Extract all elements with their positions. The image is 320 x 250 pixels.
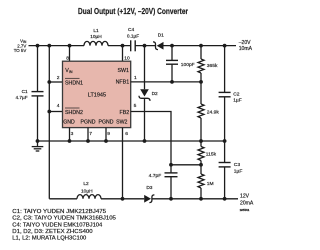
resistor 365k (200, 46, 202, 59)
wire pin8 stub (69, 46, 71, 62)
capacitor C3 (224, 141, 226, 163)
svg-text:C2: C2 (233, 92, 240, 98)
svg-text:1µF: 1µF (234, 169, 243, 175)
wire pin3 stub (69, 128, 71, 141)
wire pin10 stub (122, 46, 124, 62)
svg-text:10: 10 (124, 55, 130, 61)
capacitor C2 (224, 46, 226, 93)
wire pin7 stub (87, 128, 89, 141)
svg-text:C4: TAIYO YUDEN EMK107BJ104: C4: TAIYO YUDEN EMK107BJ104 (12, 222, 102, 228)
svg-text:PGND: PGND (81, 120, 96, 126)
svg-text:4.7µF: 4.7µF (16, 95, 28, 100)
svg-text:0.1µF: 0.1µF (127, 34, 139, 40)
svg-text:1: 1 (134, 75, 137, 81)
wire SHDN1 stub pin2 (49, 81, 62, 83)
wire VIN rail left (29, 45, 85, 47)
svg-text:C4: C4 (128, 27, 134, 33)
svg-text:L2: L2 (83, 181, 89, 187)
diode D1 (153, 42, 158, 50)
svg-text:1M: 1M (207, 181, 214, 187)
svg-text:C1: TAIYO YUDEN JMK212BJ475: C1: TAIYO YUDEN JMK212BJ475 (12, 209, 106, 215)
svg-text:D1, D2, D3: ZETEX ZHCS400: D1, D2, D3: ZETEX ZHCS400 (12, 229, 92, 235)
junction dots on 12V rail (121, 197, 125, 201)
svg-text:4: 4 (57, 103, 60, 109)
svg-text:1945 TA01: 1945 TA01 (240, 208, 250, 212)
ground (37, 141, 39, 146)
resistor 1M (200, 165, 202, 174)
wire D1 to -20V output (164, 45, 237, 47)
svg-text:LT1945: LT1945 (88, 93, 106, 99)
svg-text:NFB1: NFB1 (116, 80, 130, 86)
svg-text:6: 6 (125, 131, 128, 137)
svg-text:12V: 12V (240, 193, 250, 199)
svg-text:L1, L2: MURATA LQH3C100: L1, L2: MURATA LQH3C100 (12, 236, 86, 242)
svg-text:5: 5 (134, 103, 137, 109)
wire pin6 SW2 column (122, 128, 124, 199)
inductor L1 (84, 41, 108, 45)
svg-text:D3: D3 (146, 185, 152, 191)
resistor 24.9k (200, 82, 202, 104)
svg-text:FB2: FB2 (120, 110, 130, 116)
wire L1 to C4 (108, 45, 131, 47)
svg-text:D2: D2 (152, 91, 158, 97)
svg-text:PGND: PGND (99, 120, 114, 126)
ground rail (38, 140, 225, 142)
svg-text:115k: 115k (206, 152, 217, 158)
junction dots on VIN rail (36, 44, 40, 48)
svg-text:C2, C3: TAIYO YUDEN TMK316BJ10: C2, C3: TAIYO YUDEN TMK316BJ105 (12, 216, 116, 222)
wire pin9 stub (105, 128, 107, 141)
op-amp U1 LT1945 (63, 61, 131, 127)
capacitor 4.7pF (170, 165, 172, 173)
svg-text:SHDN2: SHDN2 (65, 110, 83, 116)
svg-text:7: 7 (89, 131, 92, 137)
capacitor 100pF (171, 46, 173, 61)
wire D3 to 12V output (152, 198, 238, 200)
svg-text:TO 5V: TO 5V (14, 48, 27, 53)
svg-text:SW1: SW1 (118, 68, 130, 74)
svg-text:1µF: 1µF (233, 97, 242, 103)
svg-text:8: 8 (66, 55, 69, 61)
svg-text:10mA: 10mA (239, 46, 253, 52)
resistor 115k (200, 141, 202, 147)
svg-text:365k: 365k (207, 63, 218, 69)
capacitor C4 (130, 40, 132, 51)
svg-text:9: 9 (107, 131, 110, 137)
wire FB2 pin5 (131, 112, 171, 165)
svg-text:10µH: 10µH (81, 189, 93, 195)
svg-text:2: 2 (57, 75, 60, 81)
svg-text:GND: GND (63, 120, 75, 126)
diode D3 (144, 195, 151, 203)
wire VIN feed to L2 (49, 198, 77, 200)
svg-text:Dual Output (+12V, –20V) Conve: Dual Output (+12V, –20V) Converter (78, 7, 188, 16)
wire SHDN2 stub pin4 (49, 111, 62, 113)
svg-text:24.9k: 24.9k (207, 110, 220, 116)
wire NFB1 pin1 (131, 81, 201, 83)
wire FB2 tap (171, 164, 201, 166)
wire C4 to D1 (135, 45, 155, 47)
svg-text:100pF: 100pF (181, 62, 195, 68)
diode D2 (144, 46, 146, 90)
svg-text:4.7pF: 4.7pF (149, 173, 162, 179)
svg-text:3: 3 (71, 131, 74, 137)
capacitor C1 (37, 46, 39, 92)
inductor L2 (77, 195, 101, 199)
svg-text:SHDN1: SHDN1 (65, 80, 83, 86)
wire L2 to D3 (101, 198, 144, 200)
wire SHDN column (48, 46, 50, 199)
svg-text:D1: D1 (158, 33, 164, 39)
svg-text:20mA: 20mA (240, 200, 254, 206)
svg-text:SW2: SW2 (116, 120, 127, 126)
svg-text:C1: C1 (22, 89, 28, 94)
svg-text:L1: L1 (93, 28, 99, 34)
svg-text:C3: C3 (234, 162, 241, 168)
svg-text:10µH: 10µH (90, 34, 102, 40)
